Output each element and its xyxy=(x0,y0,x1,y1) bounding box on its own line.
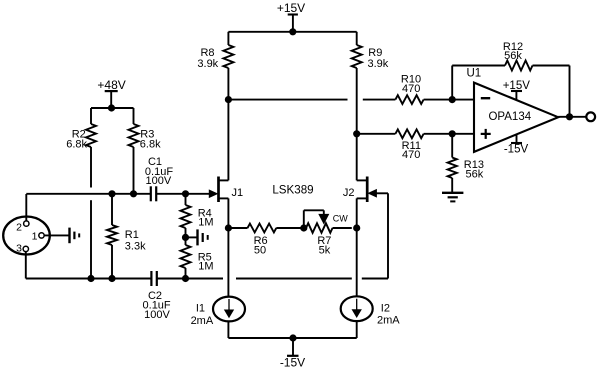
label op-amp -15V xyxy=(504,144,529,156)
svg-text:470: 470 xyxy=(402,149,420,161)
junction +48V rail xyxy=(108,105,114,111)
svg-text:50: 50 xyxy=(254,245,266,257)
resistor R5 xyxy=(181,237,191,278)
XLR pin 1 xyxy=(39,233,44,238)
svg-text:J2: J2 xyxy=(343,187,355,199)
XLR pin 3 xyxy=(23,246,28,251)
label R9 3.9k xyxy=(368,47,389,70)
svg-text:56k: 56k xyxy=(504,50,522,62)
resistor R13 xyxy=(448,134,457,192)
wire R9 to J2 drain xyxy=(356,68,358,180)
svg-text:2mA: 2mA xyxy=(377,315,400,327)
op-amp -15V supply xyxy=(511,134,522,143)
svg-text:+15V: +15V xyxy=(503,80,531,92)
wire +15V rail xyxy=(228,31,356,33)
label R10 470 xyxy=(401,73,421,95)
svg-text:3.3k: 3.3k xyxy=(125,240,146,252)
pin 2 label xyxy=(16,222,22,234)
wire I2 to -15V rail xyxy=(356,320,358,338)
wire R2 to signal- line (crossover gap) xyxy=(90,200,92,278)
resistor R12 xyxy=(505,61,533,71)
junction R6/R7/wiper xyxy=(301,225,307,231)
current source I2 xyxy=(341,296,373,321)
XLR connector P1 body xyxy=(3,217,50,255)
label J1 xyxy=(232,187,244,199)
label R6 50 xyxy=(254,235,268,257)
wire +48V rail xyxy=(91,107,134,109)
label C1 0.1uF 100V xyxy=(145,156,173,187)
label op-amp +15V xyxy=(503,80,531,92)
junction R1 bottom xyxy=(109,275,115,281)
label R4 1M xyxy=(198,208,214,229)
wire R11 to non-inverting input xyxy=(424,133,474,135)
svg-text:3.9k: 3.9k xyxy=(368,58,389,70)
wire -15V rail xyxy=(228,337,356,339)
label R8 3.9k xyxy=(197,47,218,70)
wire XLR pin 1 to chassis ground xyxy=(44,234,69,236)
wire signal- line pin3 to C2 xyxy=(26,278,151,280)
junction J1 source / R6 xyxy=(225,225,231,231)
label R12 56k xyxy=(503,41,523,62)
label I2 2mA xyxy=(377,303,400,327)
wire +15V rail to R9 xyxy=(356,32,358,45)
wire XLR pin 2 up to signal+ line xyxy=(25,194,27,221)
label R11 470 xyxy=(402,140,421,161)
label U1 xyxy=(467,68,482,80)
current source I1 xyxy=(213,297,245,322)
wire signal+ line pin2 to C1 xyxy=(26,193,150,195)
svg-text:-15V: -15V xyxy=(280,355,305,369)
+48V supply terminal xyxy=(105,91,118,108)
junction R4/R5 midpoint xyxy=(182,234,188,240)
label +48V xyxy=(97,78,125,92)
wire I1 to -15V rail xyxy=(227,321,229,338)
wire signal- between crossovers xyxy=(236,278,352,280)
svg-text:I1: I1 xyxy=(196,303,205,315)
resistor R4 xyxy=(181,194,191,238)
label I1 2mA xyxy=(191,303,214,328)
capacitor C1 xyxy=(151,186,156,201)
pin 3 label xyxy=(16,242,22,254)
JFET J1 xyxy=(209,177,228,203)
wire R10 to inverting input xyxy=(424,99,474,101)
junction R2 bottom xyxy=(88,275,94,281)
wire feedback top right xyxy=(533,65,570,67)
resistor R6 xyxy=(228,224,303,233)
junction output/feedback xyxy=(566,114,572,120)
label LSK389 xyxy=(272,183,313,196)
junction R7/J2 source xyxy=(354,225,360,231)
svg-text:100V: 100V xyxy=(146,175,172,187)
chassis ground at pin 1 xyxy=(70,228,80,244)
label R7 5k xyxy=(317,235,331,257)
wire feedback top left xyxy=(452,65,505,67)
resistor R8 xyxy=(223,45,233,68)
junction J1 drain / R10 tap xyxy=(225,97,231,103)
svg-text:6.8k: 6.8k xyxy=(66,139,87,151)
junction J2 drain / R11 tap xyxy=(354,131,360,137)
svg-text:U1: U1 xyxy=(467,68,482,80)
junction C2/R5 bottom xyxy=(182,275,188,281)
wire feedback right riser xyxy=(569,66,571,117)
wire J1 source down to I1 xyxy=(227,198,229,297)
svg-text:2mA: 2mA xyxy=(191,315,214,327)
wire signal- to J2 gate riser xyxy=(362,278,388,280)
op-amp +15V supply xyxy=(511,91,522,101)
junction inverting input node xyxy=(449,97,455,103)
-15V supply terminal xyxy=(287,338,299,356)
svg-text:OPA134: OPA134 xyxy=(488,111,531,123)
svg-text:3: 3 xyxy=(16,242,22,254)
XLR pin 2 xyxy=(24,221,29,226)
svg-text:J1: J1 xyxy=(232,187,244,199)
junction non-inverting input node xyxy=(449,131,455,137)
resistor R1 xyxy=(107,194,117,279)
wire op-amp output xyxy=(558,116,586,118)
svg-text:2: 2 xyxy=(16,222,22,234)
JFET J2 xyxy=(357,177,388,203)
wire C1 to J1 gate xyxy=(156,193,210,195)
potentiometer R7 xyxy=(304,210,352,233)
wire feedback left riser xyxy=(451,66,453,100)
wire +15V rail to R8 xyxy=(227,32,229,45)
junction +15V rail xyxy=(290,29,296,35)
svg-text:-15V: -15V xyxy=(504,144,529,156)
svg-text:6.8k: 6.8k xyxy=(140,139,161,151)
wire XLR pin 3 down to signal- line xyxy=(25,249,27,279)
svg-text:I2: I2 xyxy=(381,303,390,315)
output terminal xyxy=(586,112,595,121)
label R1 3.3k xyxy=(125,229,146,252)
resistor R9 xyxy=(352,45,362,68)
resistor R3 xyxy=(129,108,139,194)
resistor R2 xyxy=(86,108,96,188)
label OPA134 xyxy=(488,111,531,123)
svg-text:3.9k: 3.9k xyxy=(197,58,218,70)
label -15V xyxy=(280,355,305,369)
svg-text:470: 470 xyxy=(402,83,420,95)
label R13 56k xyxy=(464,159,484,181)
svg-text:1M: 1M xyxy=(198,261,213,273)
junction -15V rail xyxy=(290,335,296,341)
wire R8 to J1 drain xyxy=(227,68,229,180)
svg-text:1M: 1M xyxy=(198,217,213,229)
svg-text:5k: 5k xyxy=(319,245,331,257)
ground at R13 xyxy=(442,193,463,202)
svg-text:+15V: +15V xyxy=(277,1,305,15)
capacitor C2 xyxy=(151,271,156,286)
junction R3 bottom xyxy=(130,191,136,197)
+15V supply terminal xyxy=(288,15,298,32)
svg-text:100V: 100V xyxy=(144,309,170,321)
junction R1 top xyxy=(109,191,115,197)
svg-text:CW: CW xyxy=(333,214,348,224)
label R3 6.8k xyxy=(140,129,161,151)
svg-text:+48V: +48V xyxy=(97,78,125,92)
wire J1 drain node to R10 (crossover gap) xyxy=(228,99,395,101)
label CW xyxy=(333,214,348,224)
junction C1/R4/J1 gate xyxy=(182,191,188,197)
wire J2 drain node to R11 xyxy=(357,133,396,135)
svg-text:1: 1 xyxy=(32,231,38,243)
resistor R10 xyxy=(395,95,423,104)
svg-text:R1: R1 xyxy=(125,229,139,241)
ground at R4/R5 midpoint xyxy=(186,229,208,245)
pin 1 label xyxy=(32,231,38,243)
label +15V xyxy=(277,1,305,15)
resistor R11 xyxy=(395,129,423,138)
wire J2 gate riser xyxy=(387,193,389,278)
svg-text:56k: 56k xyxy=(466,168,484,180)
label R5 1M xyxy=(198,252,214,273)
wire J2 source down to I2 xyxy=(356,198,358,297)
wire C2 to first crossover xyxy=(157,278,223,280)
label C2 0.1uF 100V xyxy=(143,290,171,321)
label R2 6.8k xyxy=(66,129,87,151)
op-amp U1 OPA134 xyxy=(474,83,558,152)
svg-text:LSK389: LSK389 xyxy=(272,183,313,196)
label J2 xyxy=(343,187,355,199)
